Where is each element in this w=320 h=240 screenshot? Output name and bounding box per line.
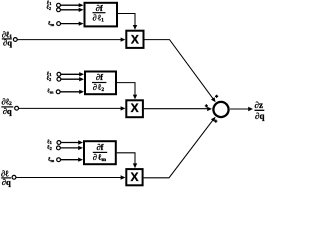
wire l1 to block U1 [60,4,79,6]
svg-text:X: X [131,101,139,115]
svg-text:ℓm: ℓm [47,157,54,163]
svg-text:∂q: ∂q [2,177,11,187]
node circle dl1/dq [13,38,17,42]
block U3 df/dlm [84,141,116,164]
node circle l1 (row 2) [57,72,61,76]
wire l2 to block U2 [61,78,80,80]
wire lm to block U1 [61,23,80,25]
node circle lm (row 2) [56,90,60,94]
left node label dl2/dq [1,97,13,116]
multiplier X2 [126,100,143,117]
svg-text:∂f: ∂f [96,142,103,152]
node circle lm (row 3) [57,158,61,162]
wire lm to block U2 [60,91,80,93]
wire l1 to block U3 [61,142,79,144]
svg-text:ℓ2: ℓ2 [46,145,52,151]
node circle l1 (row 3) [57,141,61,145]
svg-text:∂z: ∂z [255,100,263,110]
svg-text:ℓ2: ℓ2 [46,5,52,11]
node circle l1 (row 1) [57,3,61,7]
multiplier X1 [126,31,143,48]
svg-text:ℓm: ℓm [47,21,54,27]
svg-text:ℓm: ℓm [46,89,53,95]
svg-text:∂q: ∂q [3,106,12,116]
block U2 df/dl2 [85,72,116,95]
wire l2 to block U3 [60,147,79,149]
output wire to dz/dq [230,108,248,110]
svg-text:ℓ2: ℓ2 [46,76,52,82]
wire lm to block U3 [61,159,80,161]
node circle dl2/dq [15,106,19,110]
wire X2 to summing junction [144,108,208,110]
wire U3 to multiplier X3 [117,153,135,164]
wire l1 to block U2 [61,73,80,75]
left node label dl/dq [1,168,11,186]
wire dl1/dq to X1 [17,39,121,41]
svg-text:∂q: ∂q [255,111,264,121]
wire X1 to summing junction [144,40,213,100]
plus sign (left input of summer) [205,104,208,107]
plus sign (top input of summer) [215,95,218,98]
wire dl/dq to X3 [16,177,121,179]
block U1 df/dl1 [85,3,118,27]
output label dz/dq [255,100,265,121]
multiplier X3 [126,169,142,185]
plus sign (bottom input of summer) [214,120,217,123]
svg-text:∂q: ∂q [3,37,12,47]
wire l2 to block U1 [60,9,79,11]
node circle dl/dq [12,175,16,179]
wire U2 to multiplier X2 [117,83,135,95]
svg-text:X: X [130,170,138,184]
node circle l2 (row 1) [57,8,61,12]
svg-text:∂f: ∂f [96,72,103,82]
node circle l2 (row 2) [57,77,61,81]
svg-text:X: X [131,33,139,47]
node circle l2 (row 3) [57,146,61,150]
wire dl2/dq to X2 [19,107,122,109]
wire X3 to summing junction [144,120,214,178]
wire U1 to multiplier X1 [118,14,135,26]
left node label dl1/dq [2,30,12,48]
node circle lm (row 1) [57,22,61,26]
summing junction [213,102,228,117]
